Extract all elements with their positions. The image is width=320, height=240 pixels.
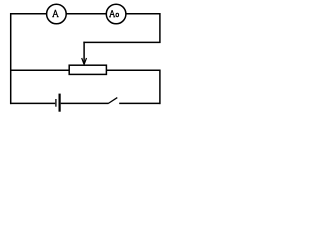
wire bottom right segment: [119, 102, 160, 104]
wire wiper vertical: [83, 42, 85, 64]
wire wiper horizontal: [83, 41, 160, 43]
wire bottom middle segment: [61, 102, 109, 104]
wire middle left segment: [10, 69, 69, 71]
battery short plate: [55, 99, 57, 107]
wire right vertical lower: [159, 70, 161, 105]
battery long plate: [58, 94, 60, 112]
wire between meters: [66, 13, 106, 15]
wire bottom left segment: [10, 102, 55, 104]
wire left vertical: [10, 13, 12, 104]
ammeter A: [47, 4, 67, 24]
rheostat R body: [69, 65, 106, 74]
ammeter A0: [106, 4, 126, 24]
wiper arrowhead: [82, 58, 87, 64]
switch K lever: [108, 98, 117, 104]
wire top right segment: [126, 13, 161, 15]
wire right vertical upper: [159, 13, 161, 43]
wire top left segment: [10, 13, 47, 15]
wire middle right segment: [107, 69, 161, 71]
